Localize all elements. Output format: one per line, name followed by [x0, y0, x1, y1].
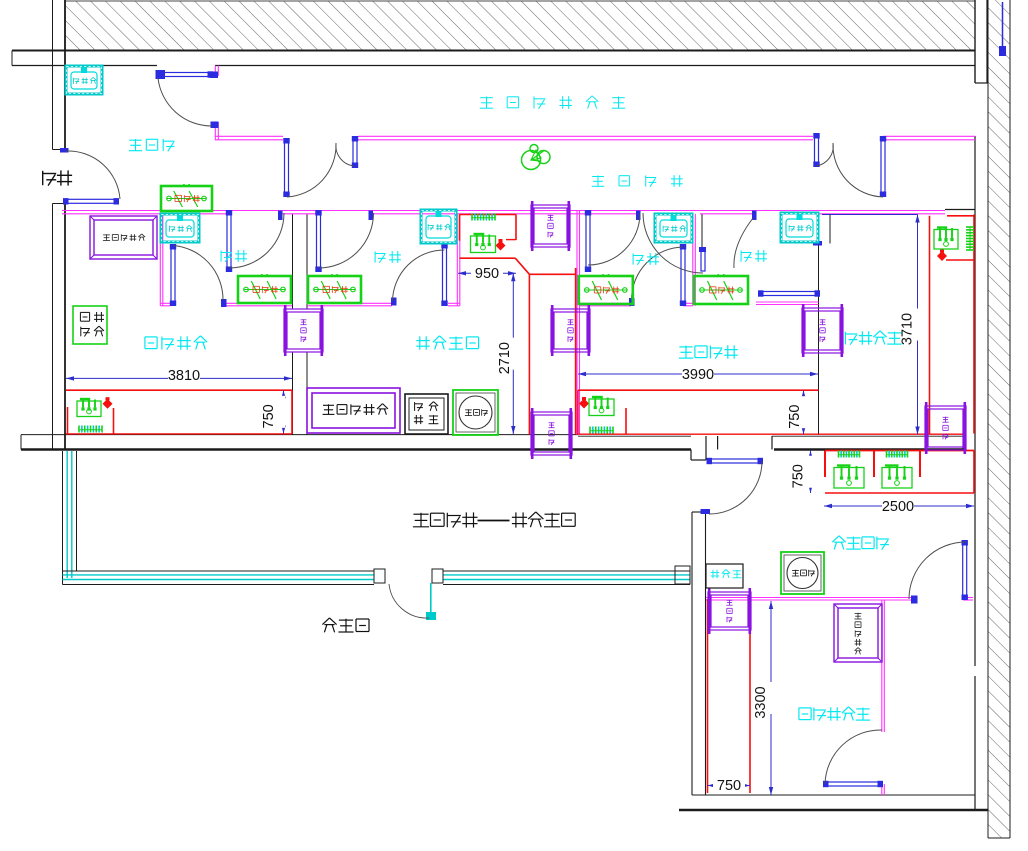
svg-text:2500: 2500 [882, 499, 914, 515]
svg-text:3710: 3710 [900, 313, 916, 345]
svg-text:750: 750 [261, 404, 277, 428]
svg-text:750: 750 [717, 778, 741, 794]
svg-text:750: 750 [791, 464, 807, 488]
svg-text:3990: 3990 [682, 367, 714, 383]
svg-text:2710: 2710 [497, 342, 513, 374]
svg-text:750: 750 [787, 405, 803, 429]
svg-text:950: 950 [475, 266, 499, 282]
svg-text:3810: 3810 [168, 368, 200, 384]
svg-text:3300: 3300 [753, 686, 769, 718]
